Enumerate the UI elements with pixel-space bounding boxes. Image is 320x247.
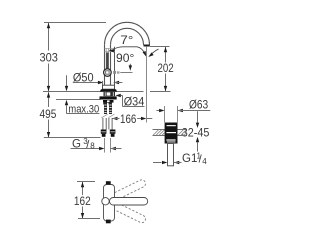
drain tailpipe — [168, 144, 174, 166]
shank below deck — [104, 92, 116, 96]
sink slab lines — [153, 129, 187, 131]
joint side fittings — [113, 71, 116, 74]
node Ø63 dimension — [164, 106, 166, 122]
svg-text:202: 202 — [158, 63, 174, 75]
mounting nut — [100, 96, 117, 99]
drain cap and body column — [165, 123, 178, 144]
faucet body column — [104, 45, 106, 89]
faucet joint circle — [104, 69, 112, 77]
lever axis line — [120, 72, 132, 74]
svg-text:Ø63: Ø63 — [189, 100, 208, 112]
top view bottom tab — [106, 220, 111, 224]
top view spout bar — [110, 198, 148, 206]
slab hatching — [153, 130, 186, 136]
node 166 dimension — [146, 47, 148, 123]
90 degree arrow right curve — [151, 49, 159, 55]
top view swivel range dashed (down) — [101, 196, 147, 224]
svg-text:G: G — [72, 138, 81, 150]
svg-text:G1: G1 — [182, 153, 197, 165]
svg-text:max.30: max.30 — [68, 103, 99, 115]
svg-text:495: 495 — [40, 109, 57, 121]
svg-text:4: 4 — [202, 157, 207, 166]
wire top extension line — [44, 22, 106, 24]
wire deck bottom line — [56, 99, 101, 101]
top view body pill — [104, 185, 115, 222]
hose break slashes — [101, 114, 107, 118]
node max.30 dimension — [66, 75, 68, 86]
faucet outlet (aerator) — [144, 45, 150, 47]
node Ø34 leader — [115, 94, 120, 97]
locknut below deck — [103, 100, 114, 103]
svg-text:166: 166 — [120, 114, 136, 126]
svg-text:7°: 7° — [120, 35, 133, 47]
faucet base flange — [100, 89, 117, 91]
top view swivel range dashed (up) — [101, 179, 147, 207]
faucet lever rod — [106, 53, 109, 70]
7 degree leader with arrows — [114, 47, 145, 53]
svg-text:Ø34: Ø34 — [124, 97, 145, 109]
wire deck top line — [43, 91, 144, 93]
node G1 1/4 dimension — [153, 162, 162, 164]
top view top tab — [106, 181, 111, 184]
faucet collar — [103, 85, 115, 89]
wire 303/495 vertical dimension line — [48, 23, 50, 137]
faucet spout arc inner — [111, 28, 144, 44]
node 202 dimension — [150, 46, 170, 48]
node 32-45 dimension — [197, 111, 199, 122]
node G 3/8 dimension — [104, 138, 106, 153]
supply nipples — [103, 103, 106, 105]
90 degree down arrow onto lever line — [129, 64, 131, 67]
svg-text:162: 162 — [74, 196, 91, 208]
drain body stripes — [166, 139, 175, 140]
top view: 162 dimension — [77, 181, 95, 183]
technical dimension drawing: kitchen faucet spec — [0, 0, 247, 247]
flex hose left — [102, 118, 104, 130]
flex hose right — [108, 118, 110, 130]
wire hose-end extension line — [44, 137, 101, 139]
top view pivot circle — [102, 198, 109, 205]
svg-text:90°: 90° — [116, 53, 134, 65]
faucet spout arc outer — [105, 22, 150, 44]
svg-text:303: 303 — [40, 52, 58, 64]
svg-text:8: 8 — [90, 141, 95, 150]
